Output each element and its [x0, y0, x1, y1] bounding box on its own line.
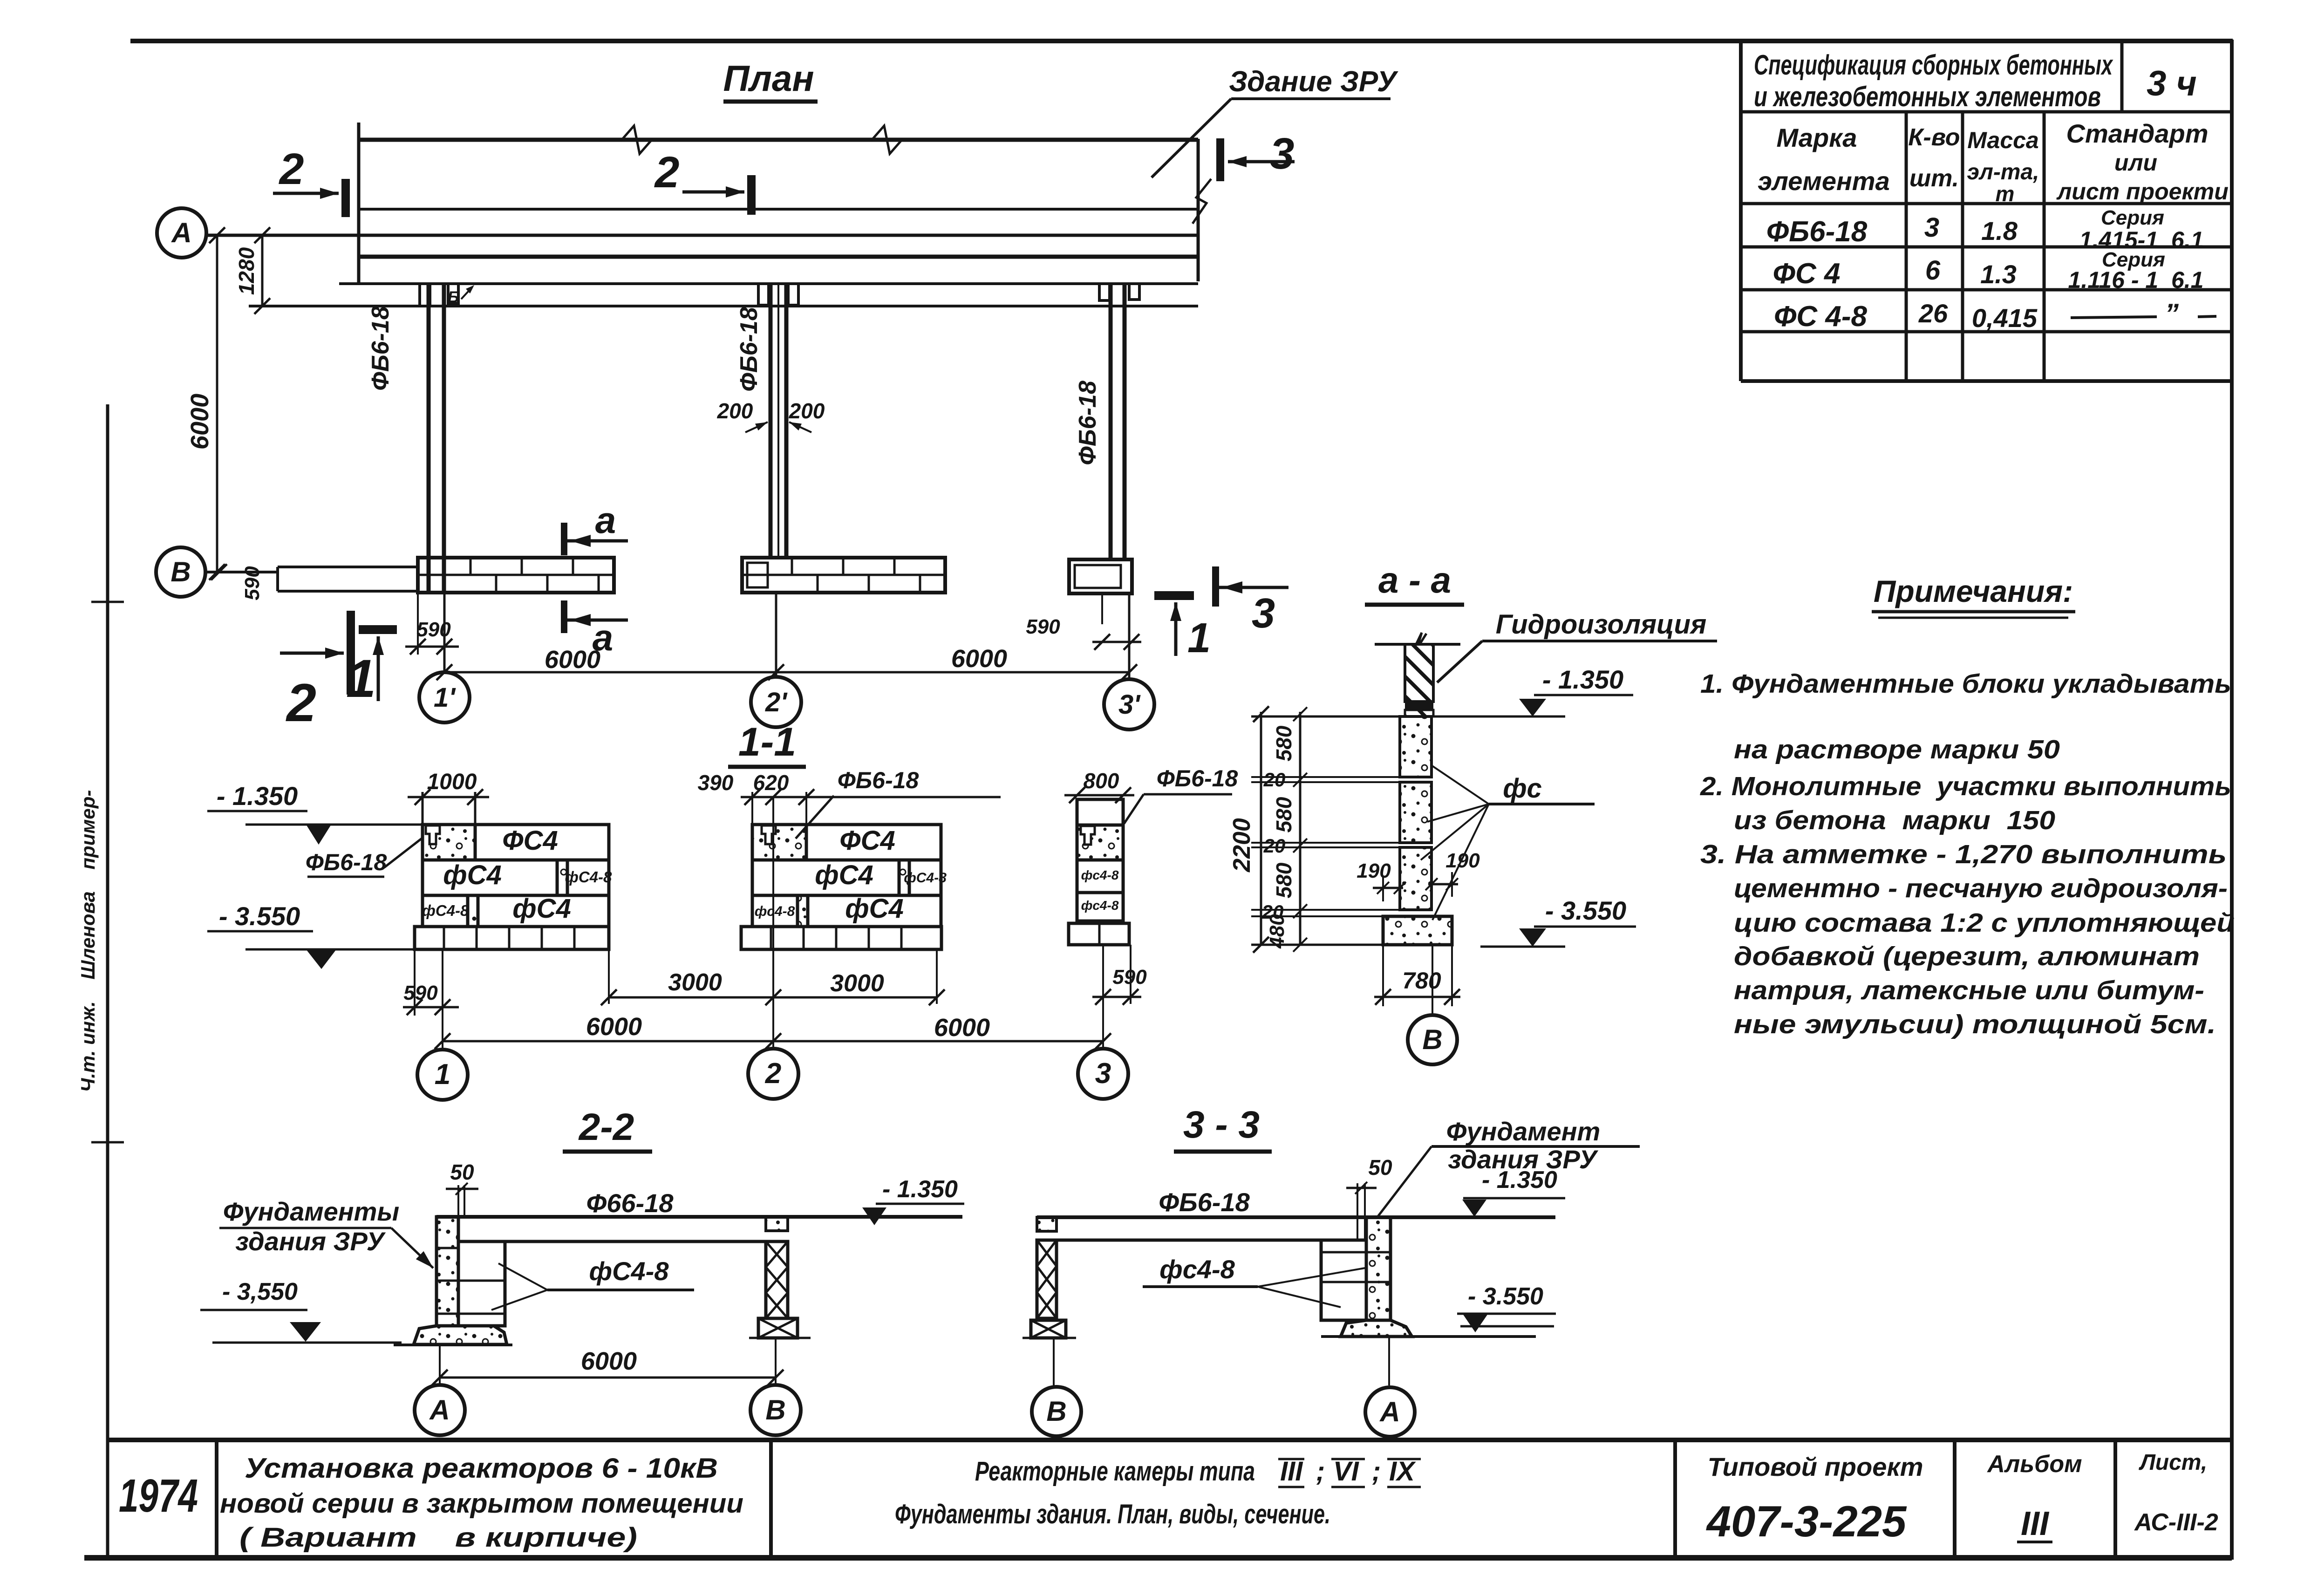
svg-text:Серия: Серия — [2101, 206, 2164, 229]
svg-text:ФБ6-18: ФБ6-18 — [306, 849, 387, 875]
svg-text:фС4-8: фС4-8 — [589, 1256, 669, 1286]
svg-text:590: 590 — [416, 618, 451, 641]
svg-text:20: 20 — [1263, 769, 1286, 791]
svg-text:IX: IX — [1389, 1456, 1416, 1487]
svg-text:Гидроизоляция: Гидроизоляция — [1496, 609, 1707, 640]
svg-text:6000: 6000 — [186, 394, 214, 450]
svg-text:3000: 3000 — [830, 970, 884, 997]
svg-text:ные эмульсии) толщиной 5см.: ные эмульсии) толщиной 5см. — [1734, 1009, 2216, 1039]
svg-text:6000: 6000 — [951, 645, 1007, 673]
svg-text:190: 190 — [1357, 859, 1391, 882]
svg-text:( Вариант в кирпиче): ( Вариант в кирпиче) — [239, 1522, 637, 1553]
svg-text:480: 480 — [1266, 914, 1288, 949]
svg-text:Марка: Марка — [1777, 123, 1857, 152]
svg-text:- 3.550: - 3.550 — [1468, 1283, 1543, 1310]
svg-text:фс4-8: фс4-8 — [755, 904, 795, 919]
svg-text:6000: 6000 — [934, 1014, 990, 1042]
svg-text:Фундамент: Фундамент — [1446, 1117, 1601, 1146]
svg-text:ФС 4: ФС 4 — [1773, 258, 1841, 290]
svg-text:Установка реакторов 6 - 10кВ: Установка реакторов 6 - 10кВ — [245, 1453, 718, 1484]
svg-text:- 3.550: - 3.550 — [219, 901, 300, 931]
svg-text:1.3: 1.3 — [1980, 259, 2017, 289]
svg-text:3: 3 — [1270, 129, 1295, 178]
svg-text:фС4-8: фС4-8 — [904, 870, 947, 886]
svg-text:фс4-8: фс4-8 — [1081, 898, 1119, 913]
svg-text:Спецификация сборных бетонных: Спецификация сборных бетонных — [1754, 49, 2113, 81]
svg-text:6: 6 — [1925, 255, 1941, 286]
svg-text:новой серии в закрытом помещен: новой серии в закрытом помещении — [220, 1488, 743, 1519]
svg-text:2-2: 2-2 — [578, 1106, 634, 1148]
svg-text:А: А — [1379, 1396, 1400, 1427]
svg-text:50: 50 — [450, 1160, 474, 1184]
svg-text:580: 580 — [1272, 725, 1296, 761]
svg-text:1974: 1974 — [119, 1470, 198, 1522]
svg-text:цию состава 1:2 с уплотняюще: цию состава 1:2 с уплотняющей — [1734, 908, 2235, 938]
svg-text:фс: фс — [1503, 773, 1542, 804]
svg-text:1': 1' — [434, 682, 456, 713]
svg-text:Ф66-18: Ф66-18 — [586, 1188, 674, 1218]
svg-text:А: А — [170, 217, 191, 248]
svg-text:200: 200 — [789, 399, 825, 423]
svg-text:3': 3' — [1118, 689, 1141, 720]
svg-text:фС4: фС4 — [815, 860, 873, 890]
svg-text:3000: 3000 — [668, 969, 722, 996]
svg-text:;: ; — [1372, 1456, 1381, 1487]
svg-text:ФС 4-8: ФС 4-8 — [1774, 300, 1868, 333]
svg-text:ФС4: ФС4 — [502, 825, 558, 856]
svg-text:Ч.т. инж. Шленова пример: Ч.т. инж. Шленова пример- — [77, 790, 99, 1092]
svg-text:1280: 1280 — [234, 247, 259, 295]
svg-text:лист проекти: лист проекти — [2056, 178, 2229, 205]
svg-text:780: 780 — [1402, 968, 1441, 994]
svg-text:Б: Б — [448, 288, 459, 306]
svg-text:натрия, латексные или битум: натрия, латексные или битум- — [1734, 975, 2204, 1005]
svg-text:190: 190 — [1445, 849, 1480, 872]
svg-text:Реакторные камеры типа: Реакторные камеры типа — [975, 1456, 1255, 1487]
svg-text:ФБ6-18: ФБ6-18 — [1766, 216, 1868, 248]
svg-text:Альбом: Альбом — [1986, 1451, 2082, 1478]
svg-text:фС4: фС4 — [512, 893, 571, 924]
svg-text:- 3.550: - 3.550 — [1545, 896, 1626, 925]
svg-text:- 1.350: - 1.350 — [1542, 665, 1623, 694]
svg-text:В: В — [1422, 1024, 1442, 1055]
svg-text:т: т — [1996, 182, 2015, 206]
svg-text:и железобетонных элементов: и железобетонных элементов — [1754, 81, 2101, 112]
svg-text:добавкой (церезит, алюминат: добавкой (церезит, алюминат — [1734, 941, 2200, 971]
svg-text:590: 590 — [241, 566, 264, 600]
svg-text:620: 620 — [753, 771, 789, 795]
svg-text:ФБ6-18: ФБ6-18 — [1159, 1187, 1250, 1217]
svg-text:580: 580 — [1272, 862, 1296, 898]
svg-text:фС4-8: фС4-8 — [565, 868, 612, 886]
svg-text:1.8: 1.8 — [1981, 216, 2018, 246]
svg-text:50: 50 — [1368, 1155, 1392, 1180]
svg-text:фс4-8: фс4-8 — [1159, 1255, 1235, 1284]
svg-text:III: III — [1280, 1456, 1303, 1487]
svg-text:2200: 2200 — [1228, 818, 1255, 873]
svg-text:6000: 6000 — [581, 1347, 637, 1375]
svg-text:1.116 - 1 6.1: 1.116 - 1 6.1 — [2068, 267, 2204, 293]
svg-text:План: План — [723, 58, 814, 99]
svg-text:2': 2' — [765, 687, 788, 717]
svg-text:”: ” — [2165, 298, 2179, 329]
svg-text:фС4: фС4 — [443, 860, 501, 890]
svg-text:590: 590 — [1112, 966, 1147, 989]
svg-text:цементно - песчаную гидроизол: цементно - песчаную гидроизоля- — [1734, 873, 2228, 903]
svg-text:Фундаменты: Фундаменты — [223, 1197, 399, 1226]
svg-text:ФС4: ФС4 — [839, 825, 895, 856]
svg-text:3 ч: 3 ч — [2147, 64, 2197, 103]
svg-text:ФБ6-18: ФБ6-18 — [367, 306, 394, 391]
svg-text:0,415: 0,415 — [1972, 303, 2038, 333]
svg-text:ФБ6-18: ФБ6-18 — [838, 767, 919, 793]
svg-text:;: ; — [1316, 1456, 1325, 1487]
svg-text:3 - 3: 3 - 3 — [1183, 1104, 1260, 1146]
svg-text:эл-та,: эл-та, — [1967, 160, 2039, 184]
svg-text:а - а: а - а — [1378, 559, 1451, 600]
svg-text:из бетона марки 150: из бетона марки 150 — [1734, 805, 2055, 835]
svg-text:В: В — [170, 556, 191, 587]
svg-text:здания ЗРУ: здания ЗРУ — [235, 1227, 386, 1256]
svg-text:Типовой проект: Типовой проект — [1707, 1452, 1923, 1481]
svg-text:6000: 6000 — [586, 1013, 642, 1041]
svg-text:- 1.350: - 1.350 — [1482, 1166, 1557, 1194]
svg-text:- 1.350: - 1.350 — [882, 1176, 958, 1203]
svg-text:ФБ6-18: ФБ6-18 — [736, 307, 763, 392]
svg-text:фС4-8: фС4-8 — [422, 902, 469, 919]
svg-text:фс4-8: фс4-8 — [1081, 868, 1119, 882]
svg-text:Фундаменты здания. План, ви: Фундаменты здания. План, виды, сечение. — [895, 1499, 1330, 1529]
svg-text:200: 200 — [717, 399, 753, 423]
svg-text:3: 3 — [1252, 590, 1275, 637]
svg-text:а: а — [595, 499, 616, 541]
svg-text:шт.: шт. — [1909, 165, 1959, 192]
svg-text:- 1.350: - 1.350 — [217, 781, 298, 811]
svg-text:Масса: Масса — [1967, 127, 2039, 153]
svg-text:2: 2 — [279, 144, 304, 194]
svg-text:2: 2 — [654, 148, 680, 197]
svg-text:Здание ЗРУ: Здание ЗРУ — [1229, 66, 1398, 98]
svg-text:800: 800 — [1084, 769, 1119, 793]
svg-text:А: А — [429, 1394, 450, 1425]
svg-text:20: 20 — [1263, 835, 1286, 857]
svg-text:1: 1 — [435, 1058, 450, 1091]
svg-text:3. На атметке - 1,270 вып: 3. На атметке - 1,270 выполнить — [1700, 839, 2227, 869]
svg-text:ФБ6-18: ФБ6-18 — [1074, 381, 1101, 465]
svg-text:590: 590 — [403, 982, 438, 1004]
svg-text:1: 1 — [1187, 615, 1211, 662]
svg-text:590: 590 — [1026, 615, 1060, 638]
svg-text:АС-III-2: АС-III-2 — [2134, 1509, 2218, 1536]
svg-text:К-во: К-во — [1908, 124, 1960, 151]
svg-text:В: В — [765, 1394, 785, 1425]
svg-text:фС4: фС4 — [845, 893, 903, 924]
svg-text:1. Фундаментные блоки уклад: 1. Фундаментные блоки укладывать — [1700, 669, 2231, 699]
svg-text:Лист,: Лист, — [2139, 1450, 2207, 1475]
svg-text:элемента: элемента — [1758, 166, 1889, 196]
svg-text:ФБ6-18: ФБ6-18 — [1157, 765, 1238, 791]
svg-text:3: 3 — [1095, 1057, 1111, 1090]
svg-text:1-1: 1-1 — [738, 720, 796, 764]
svg-text:а: а — [593, 617, 614, 658]
svg-text:1000: 1000 — [427, 770, 477, 794]
svg-text:390: 390 — [698, 771, 734, 795]
svg-text:- 3,550: - 3,550 — [222, 1278, 298, 1305]
svg-text:III: III — [2021, 1505, 2050, 1542]
svg-text:2. Монолитные участки выпол: 2. Монолитные участки выполнить — [1700, 771, 2231, 801]
svg-text:580: 580 — [1272, 797, 1296, 832]
svg-text:2: 2 — [765, 1057, 781, 1090]
svg-text:VI: VI — [1333, 1456, 1360, 1487]
svg-text:или: или — [2114, 150, 2157, 176]
svg-text:на растворе марки 50: на растворе марки 50 — [1734, 735, 2060, 764]
svg-text:3: 3 — [1924, 212, 1939, 243]
svg-text:2: 2 — [286, 673, 316, 733]
svg-text:Примечания:: Примечания: — [1874, 574, 2073, 608]
svg-text:26: 26 — [1918, 299, 1948, 328]
svg-text:В: В — [1046, 1396, 1066, 1427]
svg-text:Стандарт: Стандарт — [2066, 119, 2209, 148]
svg-text:407-3-225: 407-3-225 — [1706, 1497, 1907, 1546]
